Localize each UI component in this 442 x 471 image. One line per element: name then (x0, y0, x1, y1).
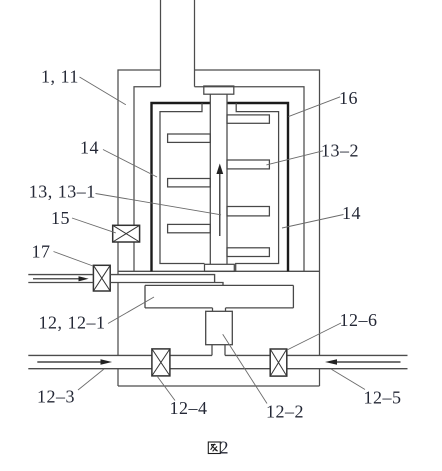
inner shell 16 (134, 87, 304, 272)
discharge box 12-2 (206, 311, 233, 344)
leader 1,11 (80, 77, 126, 105)
valve 12-4 (152, 349, 170, 376)
bottom pipe (28, 355, 407, 368)
shaft top bearing cap (204, 86, 234, 94)
svg-text:14: 14 (80, 138, 99, 158)
stirrer shaft 13,13-1 (210, 94, 227, 264)
valve 15 (113, 225, 140, 242)
leader 12,12-1 (108, 297, 154, 324)
svg-text:12–3: 12–3 (37, 387, 75, 407)
svg-text:17: 17 (32, 241, 51, 261)
svg-text:1, 11: 1, 11 (41, 67, 79, 87)
valve 17 (93, 265, 110, 291)
reaction chamber thick wall 14 (152, 103, 289, 271)
leader 14 right (282, 215, 344, 229)
svg-text:12–5: 12–5 (364, 388, 402, 408)
leader 15 (72, 218, 116, 233)
outer housing 1,11 (118, 70, 320, 386)
shaft bottom bearing cap (205, 264, 235, 271)
leader 17 (54, 252, 94, 267)
valve 12-6 (270, 349, 287, 376)
leader 16 (289, 97, 341, 117)
leader lines (54, 77, 366, 404)
blade left 2 (168, 179, 211, 187)
tank neck (213, 308, 226, 311)
blade right 4 (227, 248, 269, 257)
leader 14 left (103, 150, 157, 178)
caption 图2 (208, 442, 220, 454)
svg-text:12–2: 12–2 (266, 402, 304, 422)
blade right 2 (227, 160, 269, 169)
svg-text:12, 12–1: 12, 12–1 (39, 313, 106, 333)
liner right wall (236, 103, 279, 271)
svg-text:14: 14 (342, 203, 361, 223)
bottom left flow arrow (37, 359, 112, 365)
svg-text:15: 15 (51, 208, 70, 228)
top inlet pipe (161, 0, 195, 87)
leader 12-6 (287, 323, 341, 350)
collection tank 12,12-1 (145, 285, 293, 308)
leader 13,13-1 (96, 194, 222, 215)
partition floor (118, 270, 320, 272)
leader 12-4 (157, 376, 175, 401)
blade left 1 (168, 134, 211, 142)
svg-text:12–4: 12–4 (170, 398, 208, 418)
flow arrow inside shaft (216, 164, 223, 237)
inlet flow arrow 17 (33, 276, 89, 281)
svg-text:13, 13–1: 13, 13–1 (29, 182, 96, 202)
liner left wall (160, 103, 205, 264)
bottom right flow arrow (325, 359, 401, 365)
blade left 3 (168, 224, 211, 232)
svg-text:12–6: 12–6 (340, 310, 378, 330)
leader 12-2 (223, 334, 267, 403)
discharge neck (212, 345, 225, 356)
svg-text:16: 16 (339, 88, 358, 108)
blade right 3 (227, 207, 269, 216)
heating inlet pipe 17 (28, 275, 223, 286)
blade right 1 13-2 (227, 115, 269, 123)
svg-text:2: 2 (220, 438, 230, 458)
leader 12-3 (78, 369, 104, 390)
svg-text:13–2: 13–2 (321, 140, 359, 160)
leader 12-5 (331, 369, 365, 390)
leader 13-2 (266, 151, 323, 165)
